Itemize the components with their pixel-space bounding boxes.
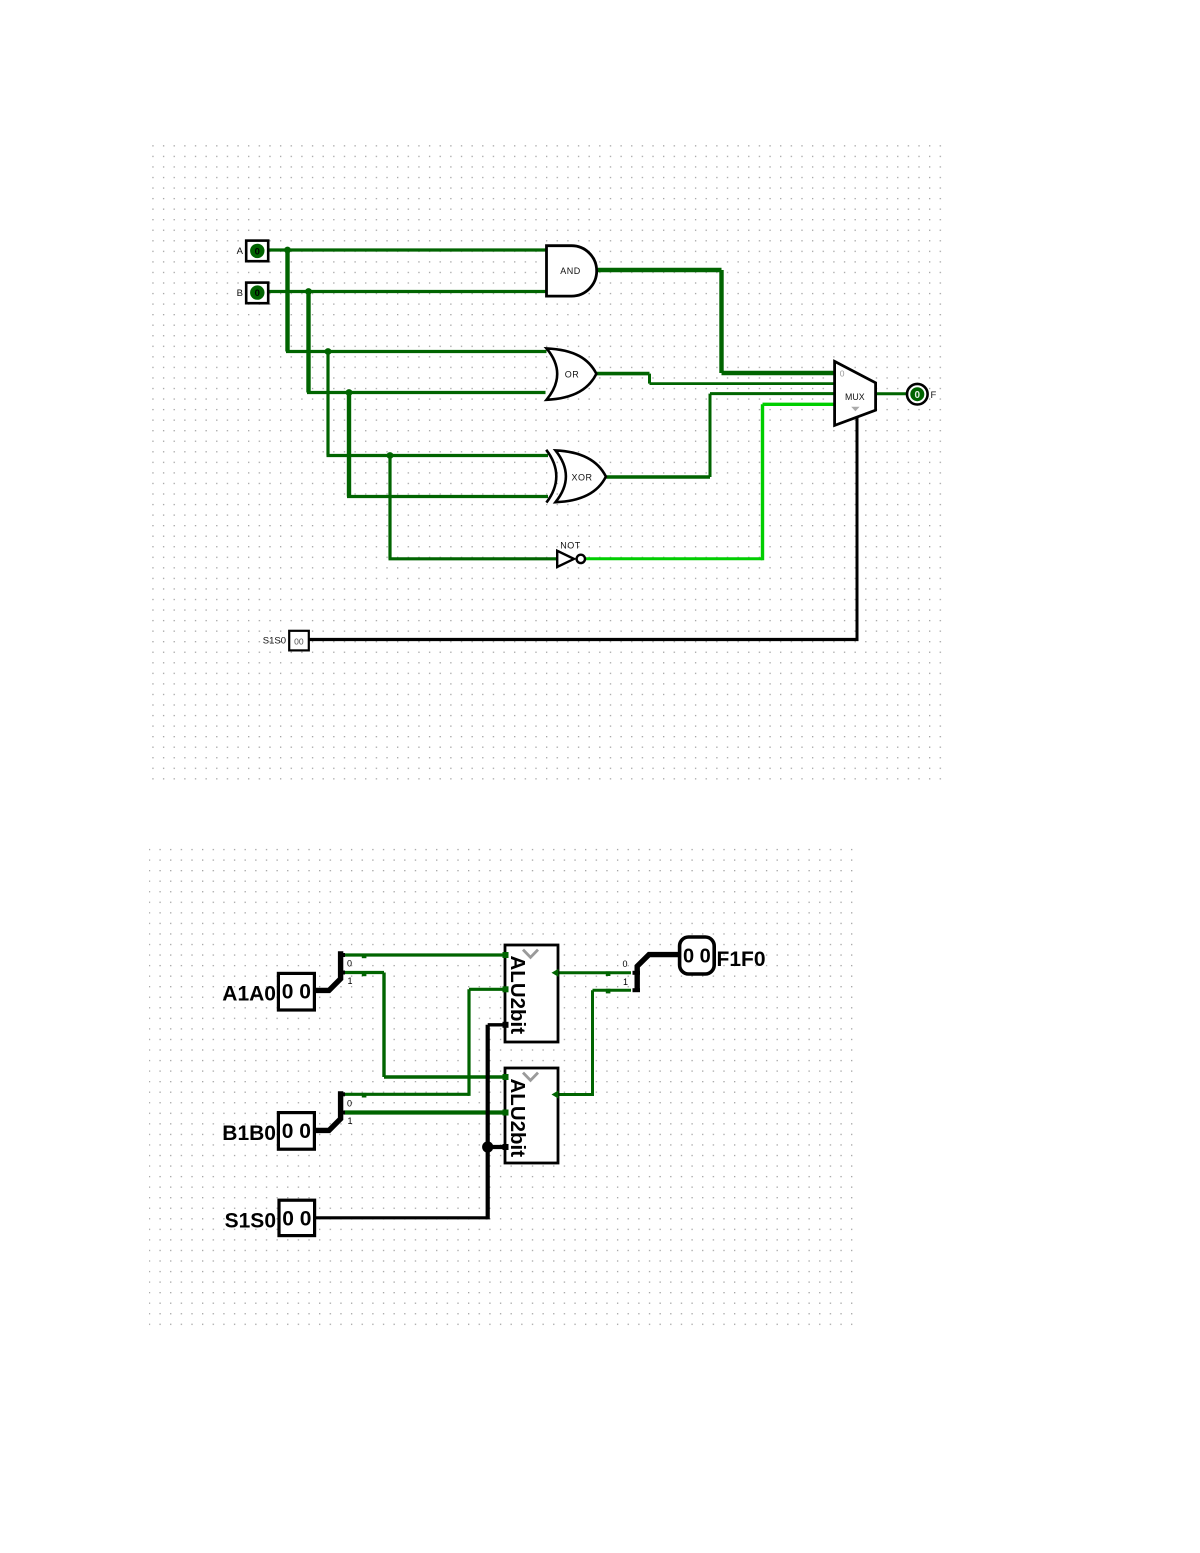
wire ALU2 output bbox=[555, 1093, 593, 1096]
svg-text:0: 0 bbox=[623, 959, 628, 969]
svg-text:F1F0: F1F0 bbox=[717, 948, 766, 971]
svg-text:0: 0 bbox=[255, 288, 260, 299]
wire ALU2 output to splitter branch 1 bbox=[593, 989, 632, 992]
wire vertical to NOT bbox=[388, 454, 391, 559]
AND gate bbox=[547, 246, 597, 296]
wire B1 vertical bbox=[467, 989, 470, 1096]
OR gate bbox=[547, 348, 597, 399]
wire B1 from splitter bbox=[344, 1093, 469, 1096]
wire select stub to ALU1 bbox=[488, 1023, 508, 1026]
wire B to AND input 2 bbox=[268, 290, 546, 293]
grid dot field (top canvas) bbox=[150, 141, 942, 786]
wire A0 from splitter bbox=[344, 971, 384, 974]
wire to XOR input 2 bbox=[347, 495, 548, 498]
wire AND output horizontal bbox=[597, 268, 722, 272]
wire nub bbox=[606, 989, 611, 994]
wire A0 vertical bbox=[382, 973, 385, 1078]
wire XOR output horizontal bbox=[605, 475, 710, 479]
wire vertical to XOR branch 2 bbox=[347, 391, 351, 497]
wire B0 to ALU2 input 2 bbox=[344, 1110, 508, 1114]
splitter A1A0 bbox=[314, 951, 352, 990]
junction node A bbox=[284, 247, 291, 254]
splitter F1F0 bbox=[623, 955, 680, 991]
svg-text:1: 1 bbox=[623, 977, 628, 987]
splitter B1B0 bbox=[314, 1091, 352, 1130]
output pin F1F0 bbox=[680, 937, 715, 974]
wire OR output jog bbox=[648, 374, 651, 384]
svg-text:S1S0: S1S0 bbox=[263, 636, 286, 647]
svg-text:ALU2bit: ALU2bit bbox=[506, 956, 529, 1035]
svg-text:0 0: 0 0 bbox=[282, 1207, 311, 1230]
svg-text:A: A bbox=[237, 246, 244, 257]
svg-text:S1S0: S1S0 bbox=[225, 1209, 276, 1232]
wire A to AND input 1 bbox=[268, 248, 547, 251]
wire OR output to MUX input 1 bbox=[650, 382, 836, 385]
wire AND output to MUX input 0 bbox=[722, 371, 836, 375]
svg-text:B: B bbox=[237, 288, 243, 299]
svg-text:B1B0: B1B0 bbox=[222, 1122, 276, 1145]
wire vertical from node A bbox=[285, 248, 289, 351]
grid dot field (bottom canvas) bbox=[149, 848, 857, 1326]
wire MUX select vertical bbox=[856, 413, 859, 640]
input pin A1A0 bbox=[278, 973, 314, 1010]
wire B1 to ALU1 input 2 bbox=[469, 988, 508, 991]
wire nub bbox=[362, 954, 367, 959]
junction on select bus bbox=[482, 1141, 493, 1152]
svg-text:0 0: 0 0 bbox=[282, 981, 311, 1004]
wire vertical from node B bbox=[306, 290, 310, 393]
svg-text:00: 00 bbox=[294, 637, 304, 647]
wire XOR output vertical bbox=[709, 394, 712, 477]
svg-text:A1A0: A1A0 bbox=[222, 983, 276, 1006]
wire XOR output to MUX input 2 bbox=[710, 392, 836, 395]
wire to OR input 2 bbox=[307, 391, 546, 394]
svg-text:F: F bbox=[931, 390, 937, 401]
wire A0 to ALU2 input 1 bbox=[384, 1075, 508, 1078]
svg-text:MUX: MUX bbox=[845, 392, 865, 402]
svg-text:OR: OR bbox=[565, 370, 580, 380]
wire AND output vertical bbox=[719, 270, 723, 373]
wire MUX output to pin F bbox=[877, 392, 908, 395]
junction on XOR input 1 wire bbox=[387, 452, 394, 459]
wire to NOT input bbox=[389, 557, 558, 560]
wire to XOR input 1 bbox=[327, 454, 549, 457]
input pin A bbox=[246, 241, 268, 262]
svg-text:ALU2bit: ALU2bit bbox=[506, 1079, 529, 1158]
subcircuit ALU2bit U1 bbox=[503, 945, 559, 1042]
subcircuit ALU2bit U2 bbox=[503, 1068, 559, 1163]
input pin B1B0 bbox=[278, 1113, 314, 1150]
svg-text:AND: AND bbox=[560, 266, 581, 276]
wire to OR input 1 bbox=[286, 350, 547, 353]
svg-text:NOT: NOT bbox=[560, 540, 581, 550]
wire NOT output horizontal bbox=[586, 557, 763, 560]
wire from S1S0 to MUX select bbox=[308, 638, 859, 641]
wire nub bbox=[362, 1093, 367, 1098]
svg-text:0: 0 bbox=[915, 390, 921, 401]
wire NOT output to MUX input 3 bbox=[763, 403, 836, 406]
svg-text:0: 0 bbox=[255, 246, 260, 257]
NOT gate bbox=[557, 540, 585, 567]
svg-text:0 0: 0 0 bbox=[683, 946, 711, 968]
multiplexer MUX bbox=[835, 361, 876, 425]
wire vertical to XOR branch bbox=[326, 350, 329, 456]
XOR gate bbox=[546, 450, 606, 503]
input pin B bbox=[246, 283, 268, 304]
wire ALU1 output to splitter branch 0 bbox=[555, 971, 631, 974]
wire S1S0 bus horizontal bbox=[314, 1216, 488, 1219]
svg-text:0 0: 0 0 bbox=[282, 1120, 311, 1143]
wire NOT output vertical bbox=[761, 404, 764, 560]
input pin S1S0 (top circuit) bbox=[289, 631, 309, 651]
wire ALU2 output vertical bbox=[591, 990, 594, 1096]
wire OR output horizontal bbox=[596, 372, 650, 376]
svg-text:XOR: XOR bbox=[571, 473, 592, 483]
svg-text:1: 1 bbox=[348, 1116, 353, 1126]
wire S1S0 bus vertical bbox=[486, 1025, 490, 1220]
svg-text:0: 0 bbox=[347, 959, 352, 969]
output pin F bbox=[907, 384, 928, 405]
junction on OR input 1 wire bbox=[325, 348, 332, 355]
svg-text:0: 0 bbox=[840, 369, 845, 379]
wire nub bbox=[362, 972, 367, 977]
input pin S1S0 (bottom circuit) bbox=[279, 1200, 315, 1235]
junction node B bbox=[305, 288, 312, 295]
wire nub bbox=[606, 971, 611, 976]
svg-text:1: 1 bbox=[348, 976, 353, 986]
junction on OR input 2 wire bbox=[346, 389, 353, 396]
svg-text:0: 0 bbox=[347, 1098, 352, 1108]
wire select stub to ALU2 bbox=[488, 1145, 508, 1149]
wire A1 to ALU1 input 1 bbox=[344, 953, 508, 956]
